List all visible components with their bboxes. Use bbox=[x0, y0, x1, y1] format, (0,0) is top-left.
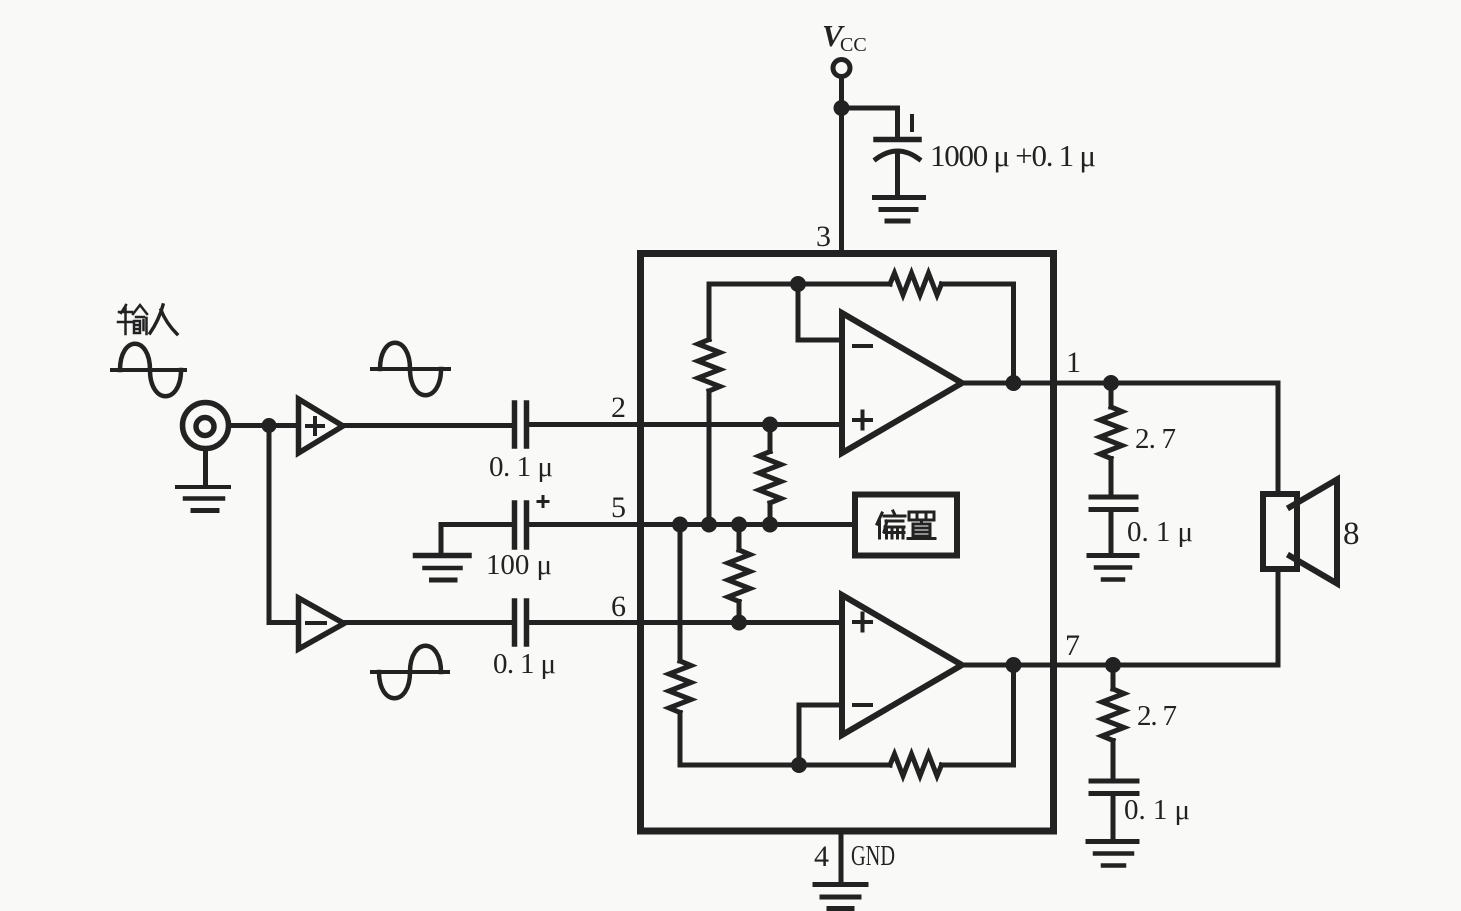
svg-text:2. 7: 2. 7 bbox=[1135, 423, 1176, 455]
svg-text:5: 5 bbox=[611, 491, 626, 524]
junction pin5 node x739 bbox=[731, 517, 747, 533]
svg-text:0. 1 μ: 0. 1 μ bbox=[493, 648, 556, 680]
svg-text:0. 1 μ: 0. 1 μ bbox=[489, 451, 553, 483]
capacitor C1 1000u+0.1u plates bbox=[876, 137, 919, 143]
svg-text:1: 1 bbox=[1066, 346, 1081, 379]
ground below C6 bbox=[1088, 839, 1137, 844]
buffer A2 inverting triangle bbox=[299, 598, 345, 649]
resistor R4 (bias to bottom feedback) bbox=[669, 661, 691, 713]
svg-text:100 μ: 100 μ bbox=[486, 549, 552, 581]
IC box TDA outline bbox=[641, 254, 1054, 832]
svg-text:0. 1 μ: 0. 1 μ bbox=[1124, 794, 1190, 826]
label C4 polarity plus bbox=[538, 497, 548, 507]
capacitor C2 0.1u plates (pin 2) bbox=[515, 403, 527, 446]
wire U2 output to pin 7 and speaker column bbox=[960, 663, 1278, 668]
capacitor C6 0.1u plates bbox=[1091, 779, 1137, 784]
wire U1 output to pin 1 and speaker column bbox=[960, 381, 1278, 386]
wire C4 left to ground bbox=[441, 525, 512, 554]
sine symbol after A1 bbox=[372, 367, 449, 371]
wire R1 to feedback line bbox=[707, 284, 712, 340]
resistor R1 (bias to top feedback) bbox=[698, 340, 720, 392]
wire R3 to pin6 line bbox=[737, 602, 742, 623]
label input 输入 (hand-drawn glyphs) bbox=[118, 305, 177, 334]
wire bottom feedback line left segment bbox=[680, 763, 890, 768]
wire pin 5 line to bias box bbox=[529, 522, 855, 527]
capacitor C5 0.1u plates bbox=[1091, 495, 1136, 500]
capacitor C1 1000u+0.1u polarity tick bbox=[910, 116, 914, 130]
junction input node dot bbox=[262, 418, 277, 433]
wire C5 to ground bbox=[1109, 512, 1114, 553]
label U2 plus sign bbox=[854, 614, 871, 631]
ground below input connector bbox=[177, 485, 229, 489]
capacitor C4 100u plates (pin 5) bbox=[515, 503, 527, 547]
wire VCC stem to pin 3 bbox=[839, 77, 844, 253]
wire pin5 down to resistor R3 bbox=[737, 525, 742, 551]
op-amp U1 triangle bbox=[842, 313, 962, 453]
label U1 minus sign bbox=[854, 344, 871, 348]
wire speaker column bottom bbox=[1276, 569, 1281, 665]
junction pin5 node x680 bbox=[672, 517, 688, 533]
junction VCC node dot bbox=[834, 100, 850, 116]
wire feedback down to U1 minus input bbox=[798, 284, 841, 340]
wire input to buffers bbox=[229, 423, 299, 428]
node VCC label bbox=[822, 18, 867, 56]
ground below C1 bbox=[875, 195, 924, 200]
wire pin 4 stub bbox=[839, 832, 844, 883]
speaker LS1 body rect bbox=[1263, 494, 1297, 569]
label A2 minus sign bbox=[307, 621, 325, 625]
resistor R3 (bias to pin6) bbox=[728, 550, 750, 602]
wire input node down to inverting buffer bbox=[269, 426, 298, 623]
resistor R7 2.7 bbox=[1100, 407, 1122, 459]
svg-text:CC: CC bbox=[840, 34, 867, 56]
wire R2 to pin2 line bbox=[768, 425, 773, 452]
ground below C4 bbox=[416, 553, 470, 559]
buffer A1 non-inverting triangle bbox=[299, 399, 344, 453]
terminal VCC circle bbox=[833, 60, 850, 77]
wire R8 to capacitor C6 bbox=[1111, 741, 1116, 780]
wire C3 to pin 6 and op-amp U2 + input bbox=[529, 620, 841, 625]
svg-text:7: 7 bbox=[1065, 629, 1080, 662]
resistor R5 feedback of U1 bbox=[890, 273, 942, 295]
svg-text:0. 1 μ: 0. 1 μ bbox=[1127, 516, 1193, 548]
label A1 plus sign bbox=[307, 418, 323, 434]
ground below pin 4 bbox=[815, 882, 866, 887]
wire pin5 down to resistor R4 bbox=[678, 525, 683, 662]
ground below C5 bbox=[1089, 553, 1137, 558]
junction pin2 node dot bbox=[762, 417, 778, 433]
svg-text:2: 2 bbox=[611, 391, 626, 424]
wire pin1 node down to resistor R7 bbox=[1109, 383, 1114, 407]
junction U2 output node dot bbox=[1006, 657, 1022, 673]
wire bottom feedback line right segment bbox=[942, 665, 1014, 765]
wire connector to ground bbox=[203, 449, 208, 485]
wire C2 to pin 2 and op-amp U1 + input bbox=[529, 422, 841, 427]
junction top feedback node dot bbox=[790, 276, 806, 292]
junction pin5 node x770 bbox=[762, 517, 778, 533]
wire top feedback line right segment bbox=[942, 284, 1014, 383]
wire pin7 node down to resistor R8 bbox=[1111, 665, 1116, 689]
sine symbol after A2 inverted bbox=[372, 670, 448, 674]
wire C6 to ground bbox=[1111, 796, 1116, 839]
wire A2 output to C3 bbox=[345, 620, 512, 625]
speaker LS1 horn bbox=[1290, 480, 1337, 584]
bias block 偏置 box bbox=[855, 495, 957, 556]
svg-text:1000 μ +0. 1 μ: 1000 μ +0. 1 μ bbox=[930, 138, 1096, 173]
wire C1 to ground bbox=[895, 154, 900, 195]
wire speaker column top bbox=[1276, 383, 1281, 494]
wire R7 to capacitor C5 bbox=[1109, 459, 1114, 495]
label U2 minus sign bbox=[854, 703, 871, 707]
op-amp U2 triangle bbox=[842, 595, 962, 735]
terminal input connector bbox=[183, 403, 229, 449]
svg-text:3: 3 bbox=[816, 220, 831, 253]
wire feedback up to U2 minus input bbox=[799, 705, 841, 765]
junction bottom feedback node dot bbox=[791, 757, 807, 773]
label U1 plus sign bbox=[854, 412, 871, 429]
svg-text:8: 8 bbox=[1343, 516, 1360, 552]
svg-text:4: 4 bbox=[814, 840, 829, 873]
junction pin5 node x709 bbox=[701, 517, 717, 533]
resistor R6 feedback of U2 bbox=[890, 754, 942, 776]
wire pin5 up to resistor R2 bbox=[768, 503, 773, 525]
wire R4 to bottom feedback line bbox=[678, 713, 683, 766]
resistor R8 2.7 bbox=[1102, 689, 1124, 741]
wire top feedback line left segment bbox=[709, 282, 890, 287]
wire A1 output to C2 bbox=[344, 423, 512, 428]
label 偏置 glyphs bbox=[877, 511, 935, 539]
capacitor C3 0.1u plates (pin 6) bbox=[515, 601, 527, 644]
wire pin5 up to resistor R1 bbox=[707, 391, 712, 525]
svg-text:6: 6 bbox=[611, 590, 626, 623]
resistor R2 (bias to pin2) bbox=[759, 452, 781, 504]
svg-text:GND: GND bbox=[851, 840, 895, 872]
svg-text:2. 7: 2. 7 bbox=[1137, 700, 1177, 732]
junction U1 output node dot bbox=[1006, 375, 1022, 391]
sine symbol input bbox=[112, 368, 185, 372]
junction pin6 node dot bbox=[731, 615, 747, 631]
wire VCC branch to decoupling cap bbox=[842, 108, 898, 137]
junction pin7 external node dot bbox=[1105, 657, 1121, 673]
junction pin1 external node dot bbox=[1103, 375, 1119, 391]
